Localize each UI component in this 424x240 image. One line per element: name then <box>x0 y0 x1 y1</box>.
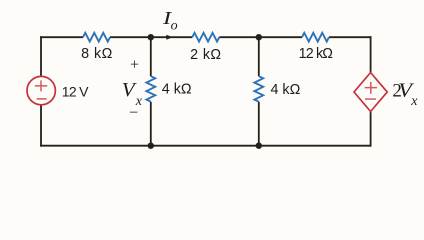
svg-text:2 kΩ: 2 kΩ <box>190 47 221 63</box>
voltage source V1 12V circle <box>27 76 55 104</box>
wire right vertical <box>370 36 372 146</box>
svg-text:4 kΩ: 4 kΩ <box>162 82 192 98</box>
resistor R5 4 kOhm right <box>254 76 263 102</box>
wire middle branch 2 <box>258 37 260 146</box>
resistor R2 2 kOhm <box>192 33 219 42</box>
resistor R4 4 kOhm left <box>146 76 155 102</box>
node C bottom-left junction dot <box>148 143 154 149</box>
svg-text:+: + <box>130 57 139 74</box>
U1 minus sign <box>365 98 376 100</box>
svg-text:12 kΩ: 12 kΩ <box>299 46 334 62</box>
node D bottom-right junction dot <box>256 143 262 149</box>
U1 plus sign <box>365 82 377 94</box>
V1 minus sign <box>37 98 47 100</box>
wire middle branch 1 <box>150 37 152 146</box>
svg-text:−: − <box>129 105 138 122</box>
node B top-right junction dot <box>256 34 262 40</box>
dependent source U1 diamond 2Vx <box>354 73 387 112</box>
V1 plus sign <box>35 80 47 91</box>
svg-text:8 kΩ: 8 kΩ <box>81 46 113 62</box>
node A top-left junction dot <box>148 34 154 40</box>
wire bottom <box>40 145 371 147</box>
svg-text:12 V: 12 V <box>62 83 89 99</box>
svg-text:4 kΩ: 4 kΩ <box>271 82 301 98</box>
wire left vertical <box>40 36 42 146</box>
svg-text:x: x <box>410 94 418 109</box>
wire top loop <box>40 36 371 38</box>
svg-text:o: o <box>171 19 178 34</box>
resistor R1 8 kOhm <box>83 33 110 42</box>
resistor R3 12 kOhm <box>302 33 329 42</box>
current arrow Io <box>166 35 172 40</box>
